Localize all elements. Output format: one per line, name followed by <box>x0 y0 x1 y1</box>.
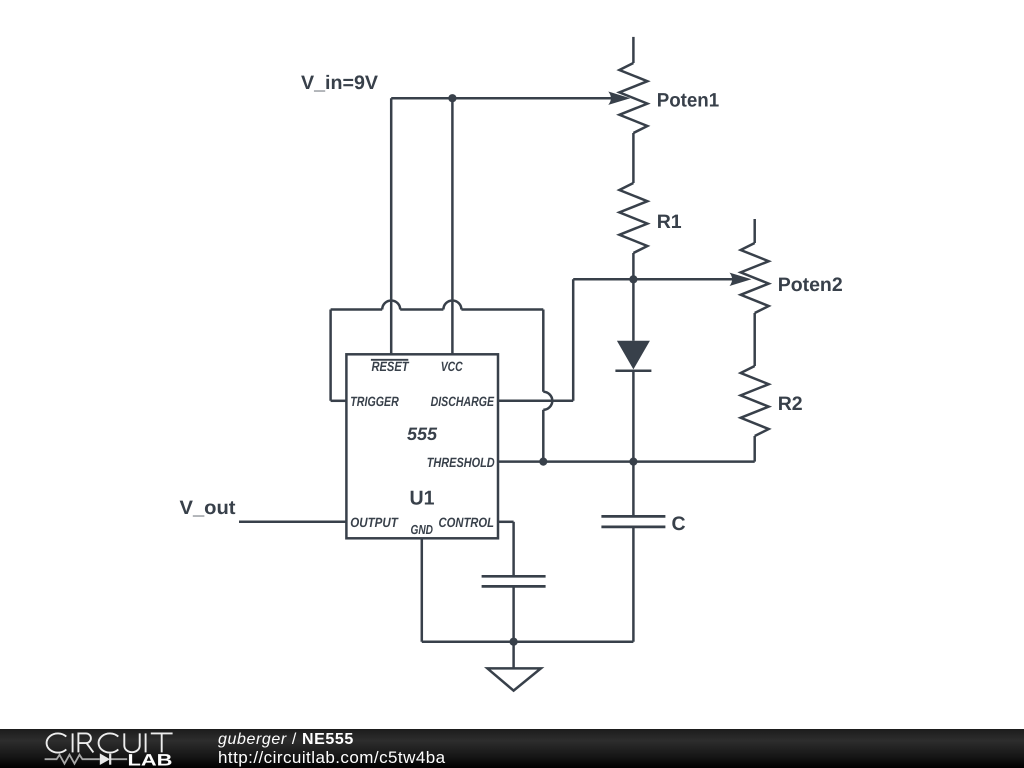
wire to Poten2 wiper <box>573 278 735 281</box>
wire THRESHOLD horizontal <box>498 460 755 463</box>
logo CIRCUIT LAB <box>0 729 200 768</box>
wire GND pin down <box>421 538 424 641</box>
svg-text:VCC: VCC <box>441 359 463 374</box>
svg-text:Poten2: Poten2 <box>778 274 843 296</box>
svg-text:DISCHARGE: DISCHARGE <box>431 394 495 409</box>
svg-text:LAB: LAB <box>128 752 173 768</box>
wire R1 bottom lead <box>632 253 635 279</box>
svg-text:V_in=9V: V_in=9V <box>301 72 378 94</box>
svg-text:Poten1: Poten1 <box>657 90 720 112</box>
wire CONTROL to cap <box>498 522 514 576</box>
svg-text:THRESHOLD: THRESHOLD <box>427 455 495 470</box>
wire trigger loop left vertical <box>329 310 332 401</box>
svg-text:CONTROL: CONTROL <box>439 515 495 530</box>
wire RESET vertical <box>390 98 393 354</box>
wire discharge vertical riser <box>572 279 575 401</box>
svg-text:GND: GND <box>411 522 434 537</box>
op-amp U1 555 IC box <box>346 354 498 538</box>
wire VCC vertical <box>451 98 454 354</box>
ground <box>487 642 541 691</box>
footer title guberger / NE555 <box>218 732 354 748</box>
wire bottom rail <box>422 640 634 643</box>
wire TRIGGER stub <box>331 400 347 403</box>
svg-text:U1: U1 <box>410 488 435 510</box>
wire OUTPUT <box>239 521 346 524</box>
svg-text:OUTPUT: OUTPUT <box>350 515 399 530</box>
svg-text:RESET: RESET <box>372 359 410 374</box>
svg-text:555: 555 <box>407 424 438 444</box>
capacitor C <box>601 516 665 641</box>
junction ground rail <box>509 638 517 646</box>
resistor R1 <box>619 183 647 253</box>
junction R1/diode/Poten2 <box>629 275 637 283</box>
capacitor C2 control <box>482 576 546 641</box>
diode D1 <box>615 279 651 516</box>
svg-text:R1: R1 <box>657 211 682 233</box>
junction threshold/diode column <box>629 458 637 466</box>
potentiometer Poten1 <box>608 37 647 183</box>
svg-text:C: C <box>672 513 686 535</box>
junction V_in/VCC <box>448 94 456 102</box>
svg-text:TRIGGER: TRIGGER <box>350 394 399 409</box>
svg-text:R2: R2 <box>778 393 803 415</box>
pin label RESET <box>371 359 410 374</box>
svg-text:V_out: V_out <box>180 497 237 519</box>
footer url <box>218 749 446 766</box>
wire trigger loop right vertical with hop <box>543 310 552 462</box>
wire trigger loop top with hops <box>331 301 544 310</box>
potentiometer Poten2 <box>730 219 769 366</box>
footer bar <box>0 729 1024 768</box>
wire DISCHARGE horizontal <box>498 400 573 403</box>
junction trigger/threshold <box>539 458 547 466</box>
resistor R2 <box>741 366 769 462</box>
wire V_in horizontal top <box>391 97 614 100</box>
